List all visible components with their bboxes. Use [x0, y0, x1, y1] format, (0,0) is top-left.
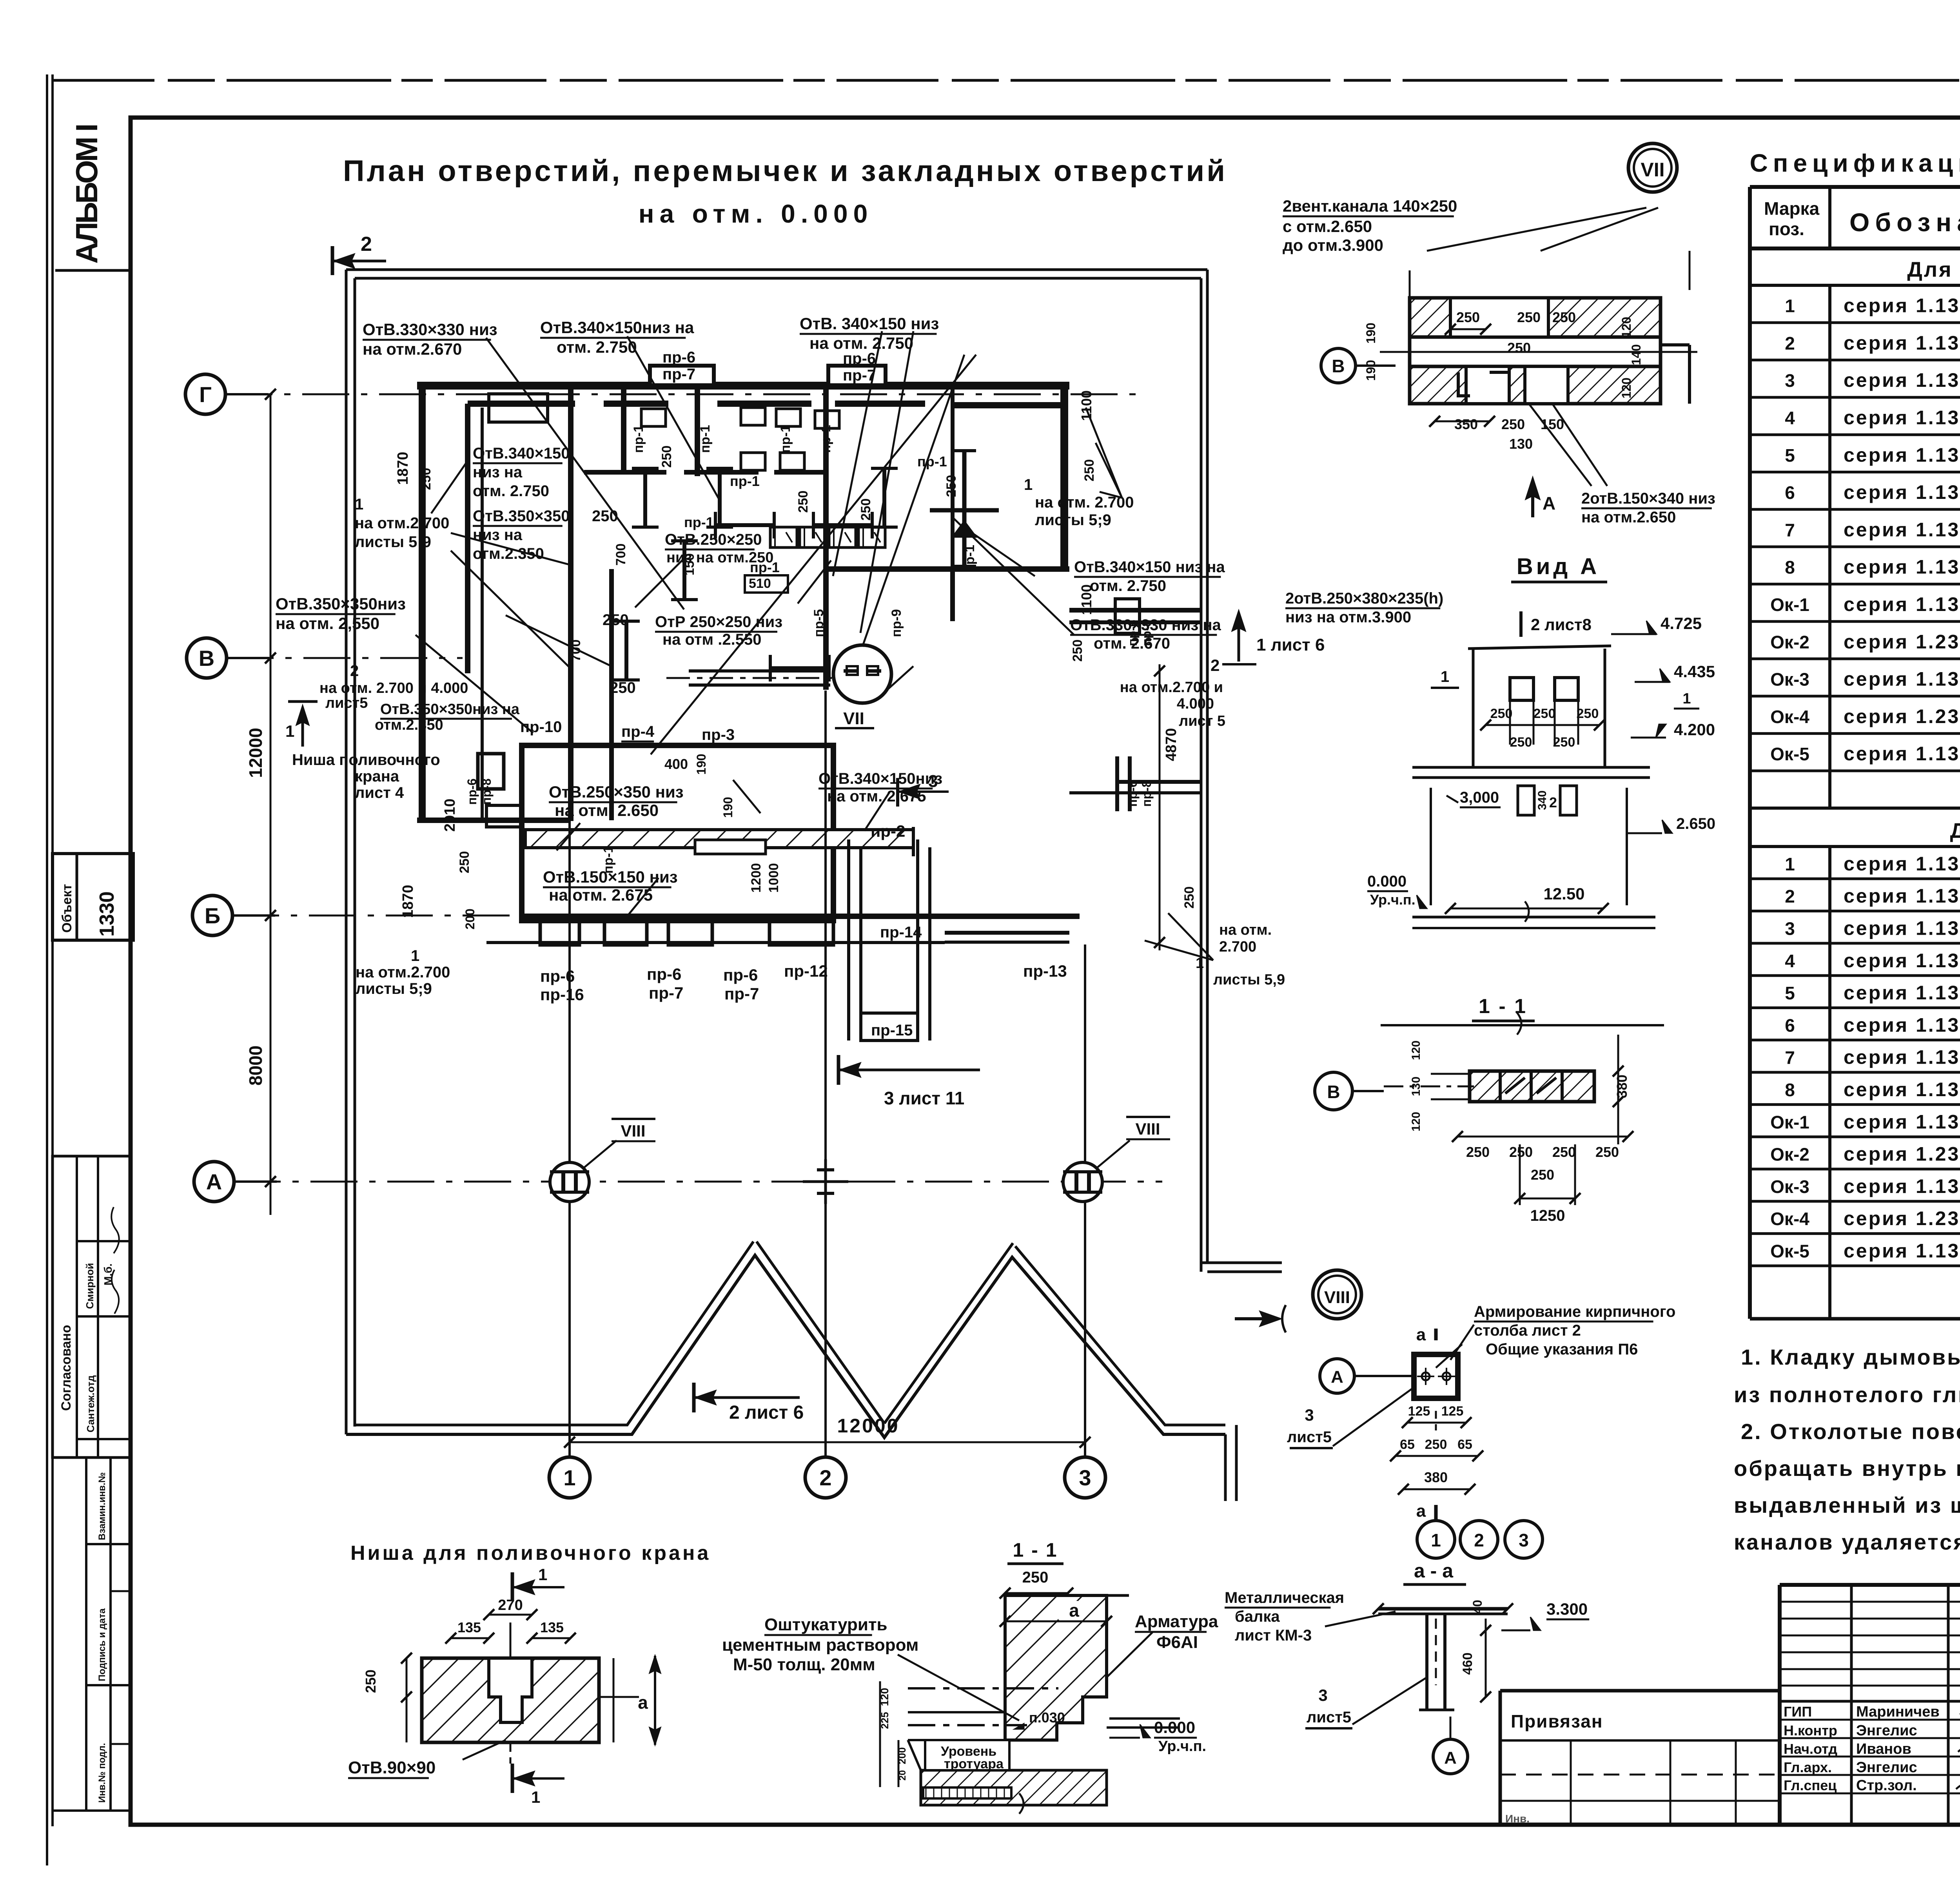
svg-text:ОтВ.150×150 низ: ОтВ.150×150 низ: [543, 868, 678, 886]
svg-text:250: 250: [610, 679, 636, 696]
svg-text:120: 120: [1410, 1112, 1423, 1131]
svg-text:Г: Г: [199, 382, 212, 407]
svg-text:Инв.№ подл.: Инв.№ подл.: [97, 1743, 107, 1803]
svg-text:серия 1.136.5-17: серия 1.136.5-17: [1844, 1111, 1960, 1133]
svg-text:250: 250: [1490, 706, 1513, 721]
svg-text:Подпись и дата: Подпись и дата: [97, 1608, 107, 1681]
svg-text:250: 250: [1082, 459, 1097, 482]
svg-text:серия 1.136-10: серия 1.136-10: [1844, 556, 1960, 578]
svg-text:Для t°н = - 40°C: Для t°н = - 40°C: [1950, 819, 1960, 843]
column bubbles 1 2 3: [549, 1457, 590, 1498]
svg-text:пр-7: пр-7: [724, 984, 759, 1003]
svg-text:пр-6: пр-6: [1125, 780, 1140, 807]
platform bottom and zigzag: [346, 1255, 1225, 1438]
svg-text:Инв.: Инв.: [1505, 1813, 1530, 1825]
svg-text:250: 250: [1534, 706, 1556, 721]
svg-text:а: а: [638, 1692, 648, 1713]
svg-text:лист 4: лист 4: [355, 784, 404, 801]
building top wall: [417, 382, 1069, 390]
svg-text:3,000: 3,000: [1460, 789, 1499, 806]
svg-text:пр-1: пр-1: [917, 453, 947, 470]
svg-text:3 лист 11: 3 лист 11: [884, 1088, 964, 1108]
svg-text:серия 1.236.5- 9: серия 1.236.5- 9: [1844, 1207, 1960, 1229]
svg-text:на отм.: на отм.: [1219, 922, 1272, 938]
svg-text:серия 1.136-10: серия 1.136-10: [1844, 982, 1960, 1004]
svg-text:700: 700: [613, 544, 628, 566]
svg-text:Н.контр: Н.контр: [1784, 1722, 1837, 1738]
section mark 2 top: [331, 246, 334, 275]
svg-text:1: 1: [285, 722, 294, 740]
svg-text:пр-6: пр-6: [465, 778, 479, 805]
svg-text:8: 8: [1785, 1080, 1795, 1100]
svg-text:а: а: [1069, 1600, 1079, 1621]
svg-text:выдавленный из швов, на вну: выдавленный из швов, на внутренних повер…: [1734, 1493, 1960, 1517]
svg-text:4.200: 4.200: [1674, 720, 1715, 739]
svg-text:12000: 12000: [837, 1415, 899, 1437]
svg-text:2: 2: [1474, 1530, 1484, 1550]
svg-text:250: 250: [1531, 1167, 1554, 1183]
svg-text:на отм. 2.750: на отм. 2.750: [809, 334, 913, 352]
svg-text:VIII: VIII: [1135, 1120, 1160, 1138]
lintel T symbols: [632, 468, 659, 527]
lower building block: [522, 745, 833, 921]
svg-text:380: 380: [1614, 1075, 1630, 1098]
svg-text:VIII: VIII: [1324, 1288, 1350, 1307]
svg-text:2вент.канала 140×250: 2вент.канала 140×250: [1283, 197, 1457, 215]
mark up arrow nisha: [301, 709, 304, 747]
nisha section slab: [908, 1687, 1058, 1690]
svg-text:1: 1: [1682, 691, 1691, 707]
svg-text:А: А: [1444, 1748, 1457, 1767]
svg-text:серия 1.136.5-19: серия 1.136.5-19: [1844, 332, 1960, 354]
svg-text:4.000: 4.000: [1177, 696, 1214, 712]
svg-text:8000: 8000: [245, 1046, 266, 1086]
svg-text:серия 1.136.5-19: серия 1.136.5-19: [1844, 917, 1960, 939]
svg-text:250: 250: [457, 851, 472, 874]
leader diagonal lines in plan: [486, 338, 684, 609]
svg-text:Армирование кирпичного: Армирование кирпичного: [1474, 1303, 1675, 1320]
svg-text:пр-1: пр-1: [698, 425, 713, 453]
approval box: [53, 1156, 131, 1457]
svg-text:А: А: [1543, 493, 1555, 513]
building left wall: [419, 385, 426, 821]
svg-text:с отм.2.650: с отм.2.650: [1283, 217, 1372, 236]
svg-text:Энгелис: Энгелис: [1856, 1759, 1917, 1776]
svg-text:крана: крана: [355, 768, 399, 785]
svg-text:250: 250: [1507, 340, 1531, 356]
svg-text:3: 3: [1519, 1530, 1529, 1550]
svg-text:Вид А: Вид А: [1517, 554, 1600, 579]
nisha bottom hatch: [921, 1770, 1107, 1805]
svg-text:200: 200: [463, 908, 477, 929]
detail VII dims: [1450, 328, 1486, 330]
svg-text:250: 250: [419, 468, 434, 490]
svg-text:листы 5:9: листы 5:9: [355, 533, 431, 551]
svg-text:250: 250: [1595, 1144, 1619, 1160]
section mark 3 in plan: [896, 778, 899, 807]
svg-text:серия 1.136.5-19: серия 1.136.5-19: [1844, 369, 1960, 391]
svg-text:Общие указания П6: Общие указания П6: [1486, 1341, 1638, 1358]
svg-text:1250: 1250: [1530, 1207, 1565, 1224]
svg-text:4.725: 4.725: [1661, 614, 1702, 633]
svg-text:Ниша для поливочного крана: Ниша для поливочного крана: [350, 1542, 711, 1564]
svg-text:120: 120: [1410, 1041, 1423, 1060]
svg-text:из полнотелого глиняного об: из полнотелого глиняного обыкновенного к…: [1734, 1382, 1960, 1407]
svg-text:120: 120: [1619, 377, 1633, 398]
svg-text:2: 2: [819, 1465, 831, 1490]
svg-text:В: В: [1327, 1082, 1340, 1102]
svg-text:лист5: лист5: [1307, 1709, 1351, 1726]
svg-text:ОтВ.340×150 низ на: ОтВ.340×150 низ на: [1074, 558, 1225, 576]
section mark 3 list 11: [837, 1055, 840, 1085]
svg-text:250: 250: [1552, 309, 1576, 325]
detail VIII circle: [1313, 1270, 1361, 1319]
svg-text:Оштукатурить: Оштукатурить: [764, 1615, 887, 1634]
svg-text:пр-13: пр-13: [1023, 962, 1067, 980]
svg-text:250: 250: [603, 611, 629, 629]
svg-text:цементным раствором: цементным раствором: [722, 1635, 918, 1655]
svg-text:2 лист 6: 2 лист 6: [729, 1402, 804, 1423]
svg-text:пр-3: пр-3: [702, 726, 735, 743]
mark 1 list 6 right: [1238, 613, 1240, 662]
svg-text:Ур.ч.п.: Ур.ч.п.: [1158, 1738, 1206, 1755]
svg-text:отм. 2.750: отм. 2.750: [1090, 577, 1166, 595]
svg-text:270: 270: [498, 1597, 523, 1613]
lintel row with hatch band: [689, 669, 830, 673]
svg-text:серия 1.136-10: серия 1.136-10: [1844, 481, 1960, 503]
svg-text:План отверстий, перемычек и за: План отверстий, перемычек и закладных от…: [343, 154, 1227, 188]
svg-text:пр-6: пр-6: [647, 965, 681, 983]
svg-text:Ок-3: Ок-3: [1770, 669, 1809, 690]
small switchboxes row: [770, 527, 797, 547]
svg-text:серия 1.136.5-17: серия 1.136.5-17: [1844, 1240, 1960, 1262]
svg-text:65: 65: [1457, 1437, 1472, 1452]
svg-text:ГИП: ГИП: [1784, 1704, 1812, 1720]
svg-text:листы 5;9: листы 5;9: [1035, 511, 1111, 529]
svg-text:1: 1: [355, 496, 363, 513]
svg-text:М-50 толщ. 20мм: М-50 толщ. 20мм: [733, 1655, 875, 1674]
svg-text:пр-16: пр-16: [540, 985, 584, 1004]
svg-text:Энгелис: Энгелис: [1856, 1722, 1917, 1739]
svg-text:пр-6: пр-6: [843, 350, 876, 367]
svg-text:2.650: 2.650: [1676, 815, 1715, 832]
svg-text:серия 1.136.5-19: серия 1.136.5-19: [1844, 295, 1960, 317]
svg-text:Ок-4: Ок-4: [1770, 707, 1809, 727]
svg-text:250: 250: [1070, 640, 1085, 662]
svg-text:пр-6: пр-6: [540, 967, 575, 985]
svg-text:ар-1: ар-1: [962, 545, 977, 572]
svg-text:3: 3: [1318, 1686, 1327, 1704]
svg-text:2. Отколотые поверхности ки: 2. Отколотые поверхности кирпича не допу…: [1741, 1419, 1960, 1444]
svg-text:250: 250: [1510, 735, 1532, 750]
svg-text:поз.: поз.: [1769, 219, 1804, 239]
svg-text:7: 7: [1785, 520, 1795, 540]
svg-text:Привязан: Привязан: [1511, 1711, 1603, 1731]
svg-text:190: 190: [694, 754, 708, 774]
svg-text:серия 1.136-10: серия 1.136-10: [1844, 1014, 1960, 1036]
svg-text:пр-12: пр-12: [784, 962, 828, 980]
svg-text:150: 150: [682, 553, 697, 576]
svg-text:лист5: лист5: [325, 695, 368, 711]
svg-text:обращать внутрь вентиляционн: обращать внутрь вентиляционного канала. …: [1734, 1456, 1960, 1481]
svg-text:серия 1.136-10: серия 1.136-10: [1844, 444, 1960, 466]
svg-text:1 - 1: 1 - 1: [1013, 1539, 1058, 1561]
svg-text:лист5: лист5: [1287, 1428, 1332, 1446]
svg-text:5: 5: [1785, 983, 1795, 1003]
svg-text:а: а: [1416, 1325, 1426, 1344]
svg-text:пр-8: пр-8: [1140, 780, 1154, 807]
svg-text:Сантеж.отд: Сантеж.отд: [85, 1375, 96, 1432]
album label box: [51, 74, 54, 1826]
svg-text:АЛЬБОМ I: АЛЬБОМ I: [69, 125, 104, 264]
svg-text:Металлическая: Металлическая: [1225, 1589, 1344, 1606]
svg-text:2: 2: [1785, 886, 1795, 906]
right side stubs: [1069, 608, 1201, 613]
svg-text:Нач.отд: Нач.отд: [1784, 1741, 1837, 1757]
svg-text:столба лист 2: столба лист 2: [1474, 1322, 1581, 1339]
svg-text:1000: 1000: [766, 863, 781, 893]
svg-text:на отм. 2.675: на отм. 2.675: [827, 788, 926, 805]
svg-text:лист КМ-3: лист КМ-3: [1235, 1627, 1312, 1644]
svg-text:12000: 12000: [245, 728, 266, 778]
svg-text:А: А: [1331, 1367, 1343, 1387]
svg-text:пр-7: пр-7: [843, 367, 876, 384]
svg-text:а: а: [1416, 1501, 1426, 1521]
svg-text:на отм.2.700: на отм.2.700: [356, 964, 450, 981]
svg-text:3: 3: [1079, 1465, 1091, 1490]
svg-text:2: 2: [1210, 656, 1220, 674]
svg-text:на отм. 2.700 и 4.000: на отм. 2.700 и 4.000: [319, 680, 468, 696]
svg-text:4: 4: [1785, 951, 1795, 971]
svg-text:низ на отм.3.900: низ на отм.3.900: [1285, 609, 1411, 626]
svg-text:Ок-5: Ок-5: [1770, 1241, 1809, 1262]
svg-text:350: 350: [1454, 416, 1478, 432]
svg-text:Ниша поливочного: Ниша поливочного: [292, 751, 440, 769]
svg-text:0.000: 0.000: [1154, 1718, 1195, 1737]
svg-text:Смирной: Смирной: [84, 1263, 96, 1309]
svg-text:серия 1.136.5-16: серия 1.136.5-16: [1844, 668, 1960, 690]
svg-text:250: 250: [1577, 706, 1599, 721]
svg-text:1 лист 6: 1 лист 6: [1256, 635, 1325, 654]
svg-text:на отм .2.550: на отм .2.550: [662, 631, 761, 648]
svg-text:Ок-1: Ок-1: [1770, 595, 1809, 615]
svg-text:пр-8: пр-8: [479, 778, 494, 805]
outer top border line: [53, 79, 1960, 82]
svg-text:250: 250: [1456, 309, 1480, 325]
svg-text:380: 380: [1424, 1469, 1448, 1485]
svg-text:4: 4: [1785, 408, 1795, 428]
svg-text:серия 1.136.5-17: серия 1.136.5-17: [1844, 1175, 1960, 1197]
svg-text:190: 190: [1364, 360, 1378, 381]
svg-text:250: 250: [1517, 309, 1541, 325]
svg-text:250: 250: [944, 475, 959, 497]
svg-text:Ок-1: Ок-1: [1770, 1112, 1809, 1132]
inventory boxes: [85, 1457, 87, 1811]
svg-text:65: 65: [1400, 1437, 1415, 1452]
title block: [1780, 1583, 1960, 1587]
svg-text:Ур.ч.п.: Ур.ч.п.: [1370, 892, 1416, 908]
svg-text:2.700: 2.700: [1219, 939, 1256, 955]
svg-text:на отм. 2,550: на отм. 2,550: [276, 614, 379, 633]
svg-text:пр-1: пр-1: [631, 425, 646, 453]
svg-text:5: 5: [1785, 445, 1795, 466]
svg-text:250: 250: [1022, 1569, 1049, 1586]
svg-text:на отм.2.650: на отм.2.650: [1581, 509, 1676, 526]
svg-text:1100: 1100: [1078, 584, 1094, 615]
svg-text:Обозначение: Обозначение: [1849, 208, 1960, 237]
svg-text:отм. 2.750: отм. 2.750: [557, 338, 637, 356]
svg-text:серия 1.236.5-9: серия 1.236.5-9: [1844, 1143, 1960, 1165]
svg-text:п.030: п.030: [1029, 1709, 1065, 1726]
svg-text:Гл.спец: Гл.спец: [1784, 1777, 1837, 1793]
svg-text:135: 135: [540, 1619, 564, 1635]
svg-text:VIII: VIII: [621, 1122, 645, 1140]
svg-text:серия 1.136-10: серия 1.136-10: [1844, 1046, 1960, 1068]
svg-text:400: 400: [664, 756, 688, 772]
svg-text:ОтВ.250×350 низ: ОтВ.250×350 низ: [549, 783, 684, 801]
corridor walls down: [847, 839, 850, 1041]
svg-text:серия 1.136.5-19: серия 1.136.5-19: [1844, 885, 1960, 907]
svg-text:Марка: Марка: [1764, 198, 1820, 219]
svg-text:1: 1: [1785, 854, 1795, 874]
svg-text:пр-8: пр-8: [1140, 620, 1154, 646]
svg-text:4.435: 4.435: [1674, 662, 1715, 681]
svg-text:8: 8: [1785, 557, 1795, 578]
svg-text:Мариничев: Мариничев: [1856, 1704, 1940, 1720]
outer left border line: [46, 74, 48, 1865]
svg-text:2отВ.150×340 низ: 2отВ.150×340 низ: [1581, 490, 1715, 507]
svg-text:пр-6: пр-6: [662, 349, 695, 366]
svg-text:серия 1.136.5-16: серия 1.136.5-16: [1844, 593, 1960, 615]
svg-text:125: 125: [1441, 1404, 1464, 1419]
svg-text:пр-1: пр-1: [818, 425, 833, 453]
svg-text:Ок-2: Ок-2: [1770, 1144, 1809, 1165]
bubbles 1 2 3 small: [1417, 1521, 1455, 1558]
svg-text:250: 250: [1466, 1144, 1490, 1160]
svg-text:серия 1.136.5-16: серия 1.136.5-16: [1844, 743, 1960, 765]
plan detail circle VII: [833, 645, 891, 703]
svg-text:130: 130: [1509, 436, 1533, 452]
svg-text:250: 250: [796, 491, 811, 513]
svg-text:пр-2: пр-2: [871, 822, 905, 840]
svg-text:130: 130: [1410, 1077, 1423, 1096]
svg-text:серия 1.136-10: серия 1.136-10: [1844, 950, 1960, 972]
svg-text:Согласовано: Согласовано: [59, 1325, 74, 1411]
svg-text:1: 1: [538, 1565, 547, 1584]
svg-text:1: 1: [1785, 296, 1795, 316]
svg-text:пр-6: пр-6: [1125, 620, 1140, 646]
svg-text:1100: 1100: [1078, 390, 1094, 421]
svg-text:2: 2: [1785, 333, 1795, 353]
svg-text:пр-7: пр-7: [649, 984, 683, 1002]
svg-text:2отВ.250×380×235(h): 2отВ.250×380×235(h): [1285, 590, 1443, 607]
detail VII view arrow A: [1531, 482, 1534, 517]
svg-text:250: 250: [1425, 1437, 1447, 1452]
svg-text:190: 190: [1364, 323, 1378, 343]
svg-text:Гл.арх.: Гл.арх.: [1784, 1759, 1832, 1775]
section mark 2 bottom: [692, 1383, 696, 1412]
svg-text:1: 1: [411, 947, 419, 964]
svg-text:В: В: [199, 646, 214, 671]
svg-text:листы 5;9: листы 5;9: [356, 980, 432, 997]
svg-text:120: 120: [1619, 317, 1633, 337]
interior walls upper: [568, 385, 573, 821]
platform boundary: [346, 268, 1207, 271]
svg-text:2910: 2910: [442, 799, 458, 832]
svg-text:3.300: 3.300: [1546, 1600, 1588, 1618]
svg-text:VII: VII: [1641, 159, 1664, 181]
svg-text:серия 1.136-10: серия 1.136-10: [1844, 407, 1960, 429]
svg-text:низ на: низ на: [473, 464, 523, 481]
svg-text:Ок-2: Ок-2: [1770, 632, 1809, 652]
object box: [53, 854, 133, 940]
vertical dimension line: [270, 394, 272, 1215]
svg-text:на отм. 2.650: на отм. 2.650: [555, 801, 659, 819]
svg-text:460: 460: [1460, 1653, 1475, 1675]
svg-text:7: 7: [1785, 1048, 1795, 1068]
nisha section a dim: [1058, 1601, 1078, 1620]
axis bubbles: [185, 374, 225, 414]
svg-text:пр-1: пр-1: [730, 473, 760, 489]
svg-text:отм. 2.750: отм. 2.750: [473, 482, 549, 500]
svg-text:190: 190: [721, 797, 735, 818]
svg-text:250: 250: [592, 508, 618, 525]
svg-text:отм.2.350: отм.2.350: [375, 717, 443, 733]
svg-text:на отм. 0.000: на отм. 0.000: [639, 199, 873, 228]
svg-text:2: 2: [361, 233, 372, 256]
svg-text:серия 1.236-6: серия 1.236-6: [1844, 631, 1960, 653]
svg-text:серия 1.136.5-19: серия 1.136.5-19: [1844, 853, 1960, 875]
VIII detail circles on plan: [550, 1162, 589, 1202]
small niches upper rooms: [641, 409, 666, 426]
svg-text:340: 340: [1536, 790, 1549, 810]
svg-text:250: 250: [1182, 886, 1197, 909]
svg-text:ОтВ.90×90: ОтВ.90×90: [348, 1758, 436, 1777]
svg-text:2: 2: [350, 662, 359, 680]
building inner top wall with openings: [468, 401, 575, 407]
svg-text:а - а: а - а: [1414, 1560, 1454, 1582]
svg-text:1: 1: [563, 1465, 575, 1490]
svg-text:пр-4: пр-4: [621, 723, 655, 740]
svg-text:250: 250: [1552, 1144, 1576, 1160]
svg-text:1: 1: [1441, 668, 1449, 685]
svg-text:135: 135: [457, 1619, 481, 1635]
svg-text:Спецификация элементов заполне: Спецификация элементов заполнения проемо…: [1750, 149, 1960, 177]
bottom pilasters: [540, 921, 579, 945]
svg-text:140: 140: [1629, 344, 1643, 365]
svg-text:Арматура: Арматура: [1135, 1612, 1218, 1631]
grid verticals: [568, 821, 571, 1456]
svg-text:6: 6: [1785, 1015, 1795, 1035]
svg-text:1870: 1870: [400, 885, 416, 918]
ramp arrow: [1235, 1317, 1277, 1320]
svg-text:ОтВ. 340×150 низ: ОтВ. 340×150 низ: [800, 314, 939, 333]
svg-text:пр-1: пр-1: [778, 425, 793, 453]
svg-text:250: 250: [858, 499, 873, 521]
svg-text:250: 250: [1509, 1144, 1533, 1160]
svg-text:балка: балка: [1235, 1608, 1280, 1625]
svg-text:1870: 1870: [395, 452, 411, 485]
svg-text:0.000: 0.000: [1367, 873, 1406, 890]
svg-text:1: 1: [531, 1788, 540, 1806]
svg-text:на отм. 2.675: на отм. 2.675: [549, 886, 653, 904]
svg-text:В: В: [1332, 356, 1345, 376]
svg-text:тротуара: тротуара: [944, 1757, 1004, 1771]
svg-text:Ок-4: Ок-4: [1770, 1209, 1809, 1229]
svg-text:3: 3: [1305, 1406, 1314, 1424]
bottom dimension 12000: [570, 1441, 1085, 1443]
svg-text:4870: 4870: [1163, 728, 1180, 761]
